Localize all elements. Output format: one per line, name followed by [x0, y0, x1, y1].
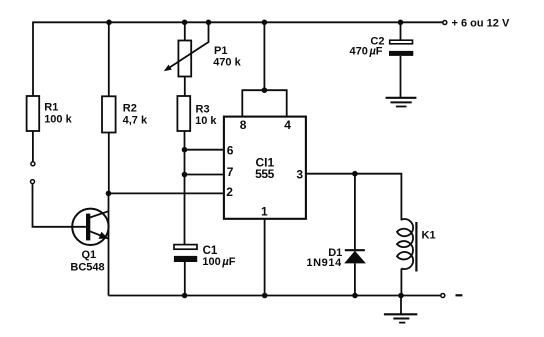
svg-text:4: 4: [284, 118, 291, 132]
svg-text:R3: R3: [196, 103, 210, 115]
svg-text:2: 2: [226, 185, 233, 199]
svg-text:BC548: BC548: [70, 261, 104, 273]
svg-text:1N914: 1N914: [306, 257, 342, 269]
svg-text:Q1: Q1: [82, 249, 97, 261]
svg-text:470 k: 470 k: [213, 57, 241, 69]
svg-text:1: 1: [261, 205, 268, 219]
svg-text:+ 6 ou 12 V: + 6 ou 12 V: [452, 17, 510, 29]
svg-text:8: 8: [240, 118, 247, 132]
svg-text:100µF: 100µF: [202, 256, 235, 268]
svg-text:R1: R1: [44, 102, 58, 114]
svg-text:470µF: 470µF: [350, 46, 383, 58]
svg-text:10 k: 10 k: [195, 115, 217, 127]
svg-text:4,7 k: 4,7 k: [123, 114, 148, 126]
svg-text:K1: K1: [422, 229, 436, 241]
svg-text:100 k: 100 k: [44, 114, 72, 126]
svg-text:7: 7: [227, 165, 234, 179]
svg-text:6: 6: [227, 144, 234, 158]
svg-text:3: 3: [296, 167, 303, 181]
svg-text:P1: P1: [214, 45, 227, 57]
svg-text:555: 555: [255, 167, 275, 181]
svg-text:R2: R2: [123, 102, 137, 114]
